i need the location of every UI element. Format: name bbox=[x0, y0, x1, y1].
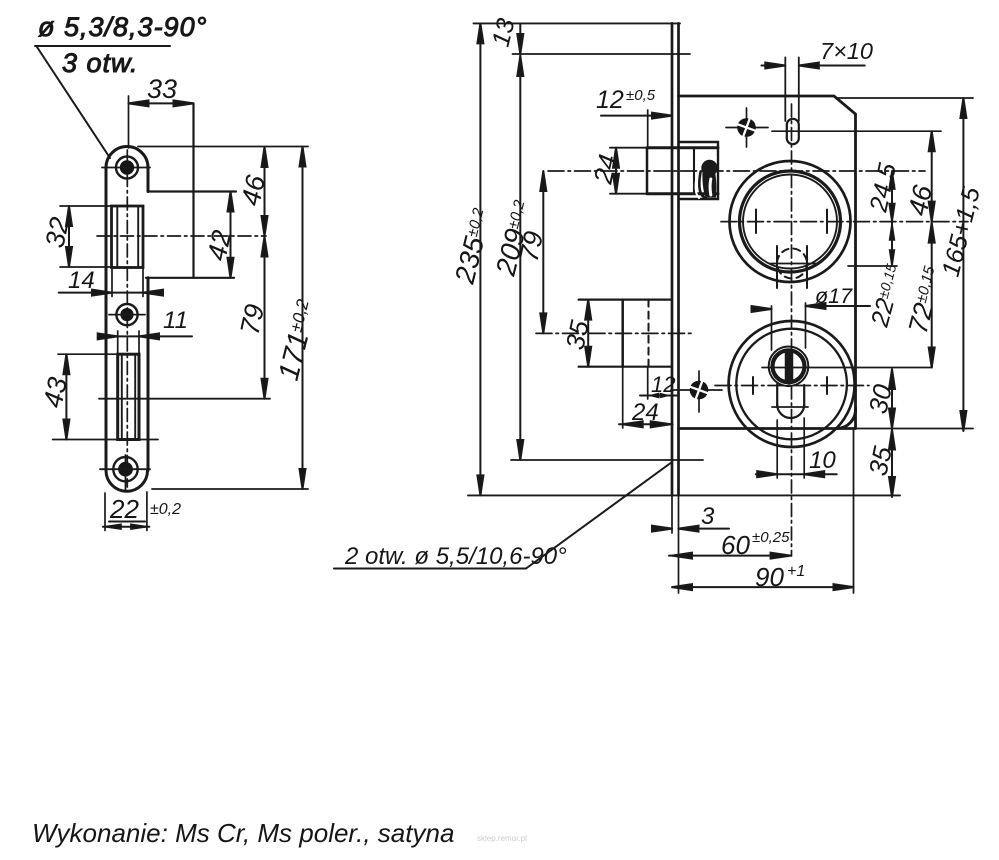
dim 42 bbox=[202, 192, 238, 278]
dim 24 deadbolt bbox=[619, 367, 673, 428]
dim 32 bbox=[40, 206, 113, 267]
dim 79 left bbox=[235, 236, 271, 399]
latch cutout centerline bbox=[97, 235, 266, 237]
cylinder hole outer circle bbox=[729, 321, 855, 447]
middle screw hole bbox=[109, 304, 145, 325]
deadbolt slot centerline ext bbox=[99, 398, 270, 400]
dim 12 latch protrusion bbox=[596, 86, 672, 146]
dim 79 right bbox=[514, 171, 550, 333]
svg-text:14: 14 bbox=[68, 267, 95, 294]
dim 10 bbox=[756, 418, 837, 478]
euro profile outer circle bbox=[769, 347, 809, 387]
key slot filled bbox=[785, 353, 794, 380]
svg-text:±0,2: ±0,2 bbox=[150, 501, 181, 518]
dim 33 bbox=[129, 74, 194, 148]
svg-text:79: 79 bbox=[235, 302, 271, 338]
cylinder hole inner ring bbox=[736, 329, 847, 440]
faceplate bottom ext line bbox=[468, 494, 900, 496]
cylinder tick marks bbox=[752, 377, 754, 394]
dim 22 bottom bbox=[103, 492, 181, 531]
dim phi17 bbox=[751, 284, 870, 350]
svg-text:3: 3 bbox=[701, 503, 715, 530]
dim 235 bbox=[449, 23, 498, 495]
dim 171 bbox=[152, 147, 324, 490]
hidden hole dashed circle bbox=[770, 246, 816, 288]
latch bolt bbox=[610, 148, 718, 194]
faceplate top ext line bbox=[474, 22, 681, 24]
latch guide box bbox=[679, 142, 718, 199]
deadbolt centerline bbox=[536, 332, 692, 334]
svg-text:43: 43 bbox=[38, 375, 74, 411]
follower hole outer circle bbox=[730, 161, 851, 282]
svg-text:2 otw. ø 5,5/10,6-90°: 2 otw. ø 5,5/10,6-90° bbox=[344, 543, 567, 570]
phi17 thick circle bbox=[773, 350, 805, 382]
lock case body bbox=[679, 96, 856, 429]
dim 24,5 bbox=[864, 161, 902, 222]
plate vertical centerline bbox=[126, 150, 128, 487]
svg-text:24: 24 bbox=[631, 399, 659, 426]
svg-text:12: 12 bbox=[596, 86, 624, 114]
dim 11 bbox=[98, 307, 192, 355]
svg-text:12: 12 bbox=[651, 372, 675, 397]
leader label 2 holes bbox=[334, 462, 672, 570]
svg-text:±0,5: ±0,5 bbox=[626, 87, 656, 104]
svg-text:3 otw.: 3 otw. bbox=[62, 48, 139, 78]
upper countersunk screw hole bbox=[726, 108, 768, 147]
latch centerline bbox=[548, 170, 925, 172]
dim 3 faceplate bbox=[652, 495, 729, 593]
dim 46 right bbox=[903, 131, 939, 221]
svg-text:10: 10 bbox=[809, 447, 836, 474]
svg-text:90: 90 bbox=[755, 562, 784, 592]
dim 14 bbox=[59, 267, 163, 297]
dim 30 bbox=[863, 369, 898, 429]
svg-text:42: 42 bbox=[202, 228, 238, 264]
slot horizontal centerline bbox=[772, 130, 941, 132]
svg-text:+1: +1 bbox=[787, 563, 805, 580]
lower countersunk screw hole bbox=[671, 371, 722, 412]
strike plate outline bbox=[106, 147, 148, 492]
dim 90 bbox=[672, 562, 854, 592]
dim 7x10 bbox=[761, 38, 873, 69]
svg-text:Wykonanie: Ms Cr, Ms poler., s: Wykonanie: Ms Cr, Ms poler., satyna bbox=[32, 818, 454, 848]
cylinder centerline horizontal bbox=[715, 385, 869, 387]
dim 12 deadbolt bbox=[640, 367, 678, 399]
svg-text:sklep.remor.pl: sklep.remor.pl bbox=[477, 834, 527, 843]
deadbolt slot rectangle bbox=[118, 354, 139, 439]
svg-text:22: 22 bbox=[109, 494, 139, 524]
case bottom ext line bbox=[856, 428, 974, 430]
euro profile bottom lobe bbox=[777, 405, 804, 419]
strike plate lip tab bbox=[146, 103, 236, 277]
latch cutout rectangle bbox=[112, 206, 144, 268]
bottom screw hole bbox=[100, 455, 150, 491]
follower hole inner rings bbox=[740, 171, 841, 272]
slot 7x10 capsule bbox=[787, 119, 799, 144]
svg-text:±0,25: ±0,25 bbox=[752, 529, 790, 546]
cylinder vertical centerline bbox=[791, 104, 793, 556]
dim 165 bbox=[937, 98, 986, 431]
dim 72 bbox=[903, 222, 949, 368]
top screw hole bbox=[102, 157, 150, 179]
dim 13 and 209 bbox=[487, 16, 539, 460]
svg-text:24: 24 bbox=[587, 152, 623, 188]
bottom hole tick line y460 bbox=[511, 459, 703, 461]
deadbolt box bbox=[579, 300, 671, 367]
top hole tick line y54 bbox=[513, 53, 691, 55]
case right edge ext down bbox=[853, 429, 855, 594]
svg-text:33: 33 bbox=[147, 74, 177, 104]
svg-text:32: 32 bbox=[40, 215, 76, 251]
dim 24 latch bbox=[587, 148, 623, 194]
svg-text:11: 11 bbox=[163, 307, 188, 334]
phi17 centerline bbox=[762, 367, 932, 369]
faceplate edge-on bbox=[672, 23, 679, 495]
latch tail detail bbox=[696, 156, 718, 198]
case top ext line bbox=[836, 97, 973, 99]
euro profile waist bbox=[776, 384, 778, 406]
dim 43 bbox=[38, 354, 158, 439]
leader label "3 holes countersunk" bbox=[35, 12, 207, 158]
follower tick marks bbox=[755, 210, 757, 234]
follower centerline horizontal bbox=[721, 221, 968, 223]
svg-text:ø17: ø17 bbox=[815, 284, 853, 308]
dim 35 deadbolt bbox=[560, 300, 595, 367]
dim 60 bbox=[669, 529, 791, 560]
dim 35 right bbox=[863, 429, 898, 498]
svg-text:79: 79 bbox=[514, 229, 550, 265]
svg-text:60: 60 bbox=[721, 530, 750, 560]
svg-text:7×10: 7×10 bbox=[820, 38, 873, 64]
dim 22 right bbox=[848, 222, 909, 331]
svg-text:ø 5,3/8,3-90°: ø 5,3/8,3-90° bbox=[38, 12, 207, 42]
case corner arc bbox=[836, 408, 856, 429]
slot ext lines bbox=[784, 57, 786, 121]
dim 46 left bbox=[138, 147, 308, 237]
